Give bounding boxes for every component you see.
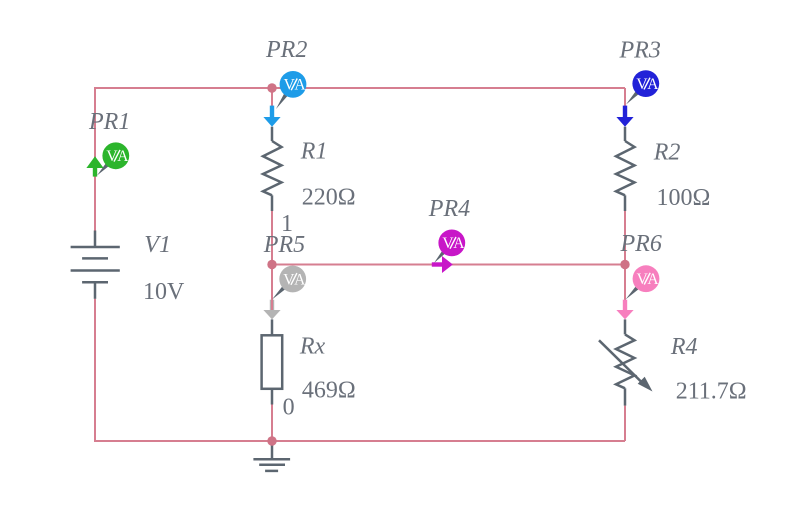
wire Rx branch bottom: [271, 405, 273, 442]
resistor R2: [616, 127, 635, 211]
resistor R1: [263, 127, 282, 211]
probe PR5: [263, 266, 306, 320]
svg-text:PR1: PR1: [88, 109, 130, 135]
svg-text:PR4: PR4: [428, 196, 470, 222]
junction dot ground: [267, 436, 276, 445]
svg-text:R2: R2: [653, 140, 681, 166]
voltage source V1: [71, 231, 120, 299]
resistor Rx: [262, 319, 283, 404]
svg-text:PR6: PR6: [620, 231, 662, 257]
probe PR3: [616, 70, 659, 127]
wire R1 branch bottom: [271, 211, 273, 265]
wire left upper: [94, 87, 96, 231]
svg-text:211.7Ω: 211.7Ω: [676, 378, 747, 404]
svg-text:R1: R1: [300, 139, 328, 165]
svg-text:PR3: PR3: [619, 37, 661, 63]
wire R2 branch bottom: [624, 211, 626, 265]
probe PR1: [86, 142, 129, 176]
svg-text:100Ω: 100Ω: [657, 185, 711, 211]
svg-text:Rx: Rx: [299, 333, 326, 359]
svg-text:PR5: PR5: [263, 232, 305, 258]
svg-text:PR2: PR2: [265, 37, 307, 63]
probe PR4: [432, 230, 465, 274]
junction dot PR6: [620, 260, 629, 269]
resistor R4 (variable): [599, 319, 644, 405]
wire R4 branch top: [624, 265, 626, 302]
junction dot PR2: [267, 83, 276, 92]
wire middle: [272, 264, 625, 266]
wire R2 branch top: [624, 88, 626, 107]
wire Rx branch top: [271, 265, 273, 302]
svg-text:0: 0: [283, 394, 295, 420]
ground: [253, 441, 290, 471]
wire bottom: [95, 440, 625, 442]
wire top: [95, 87, 625, 89]
svg-text:220Ω: 220Ω: [302, 185, 356, 211]
svg-text:10V: 10V: [143, 279, 185, 305]
probe PR2: [263, 71, 306, 127]
svg-text:469Ω: 469Ω: [302, 378, 356, 404]
R4 wiper arrowhead: [638, 377, 653, 392]
junction dot PR5: [267, 260, 276, 269]
wire left lower: [94, 299, 96, 442]
probe PR6: [616, 265, 659, 319]
wire R1 branch top: [271, 88, 273, 107]
svg-text:V1: V1: [144, 232, 171, 258]
wire R4 branch bottom: [624, 406, 626, 441]
svg-text:R4: R4: [670, 334, 698, 360]
